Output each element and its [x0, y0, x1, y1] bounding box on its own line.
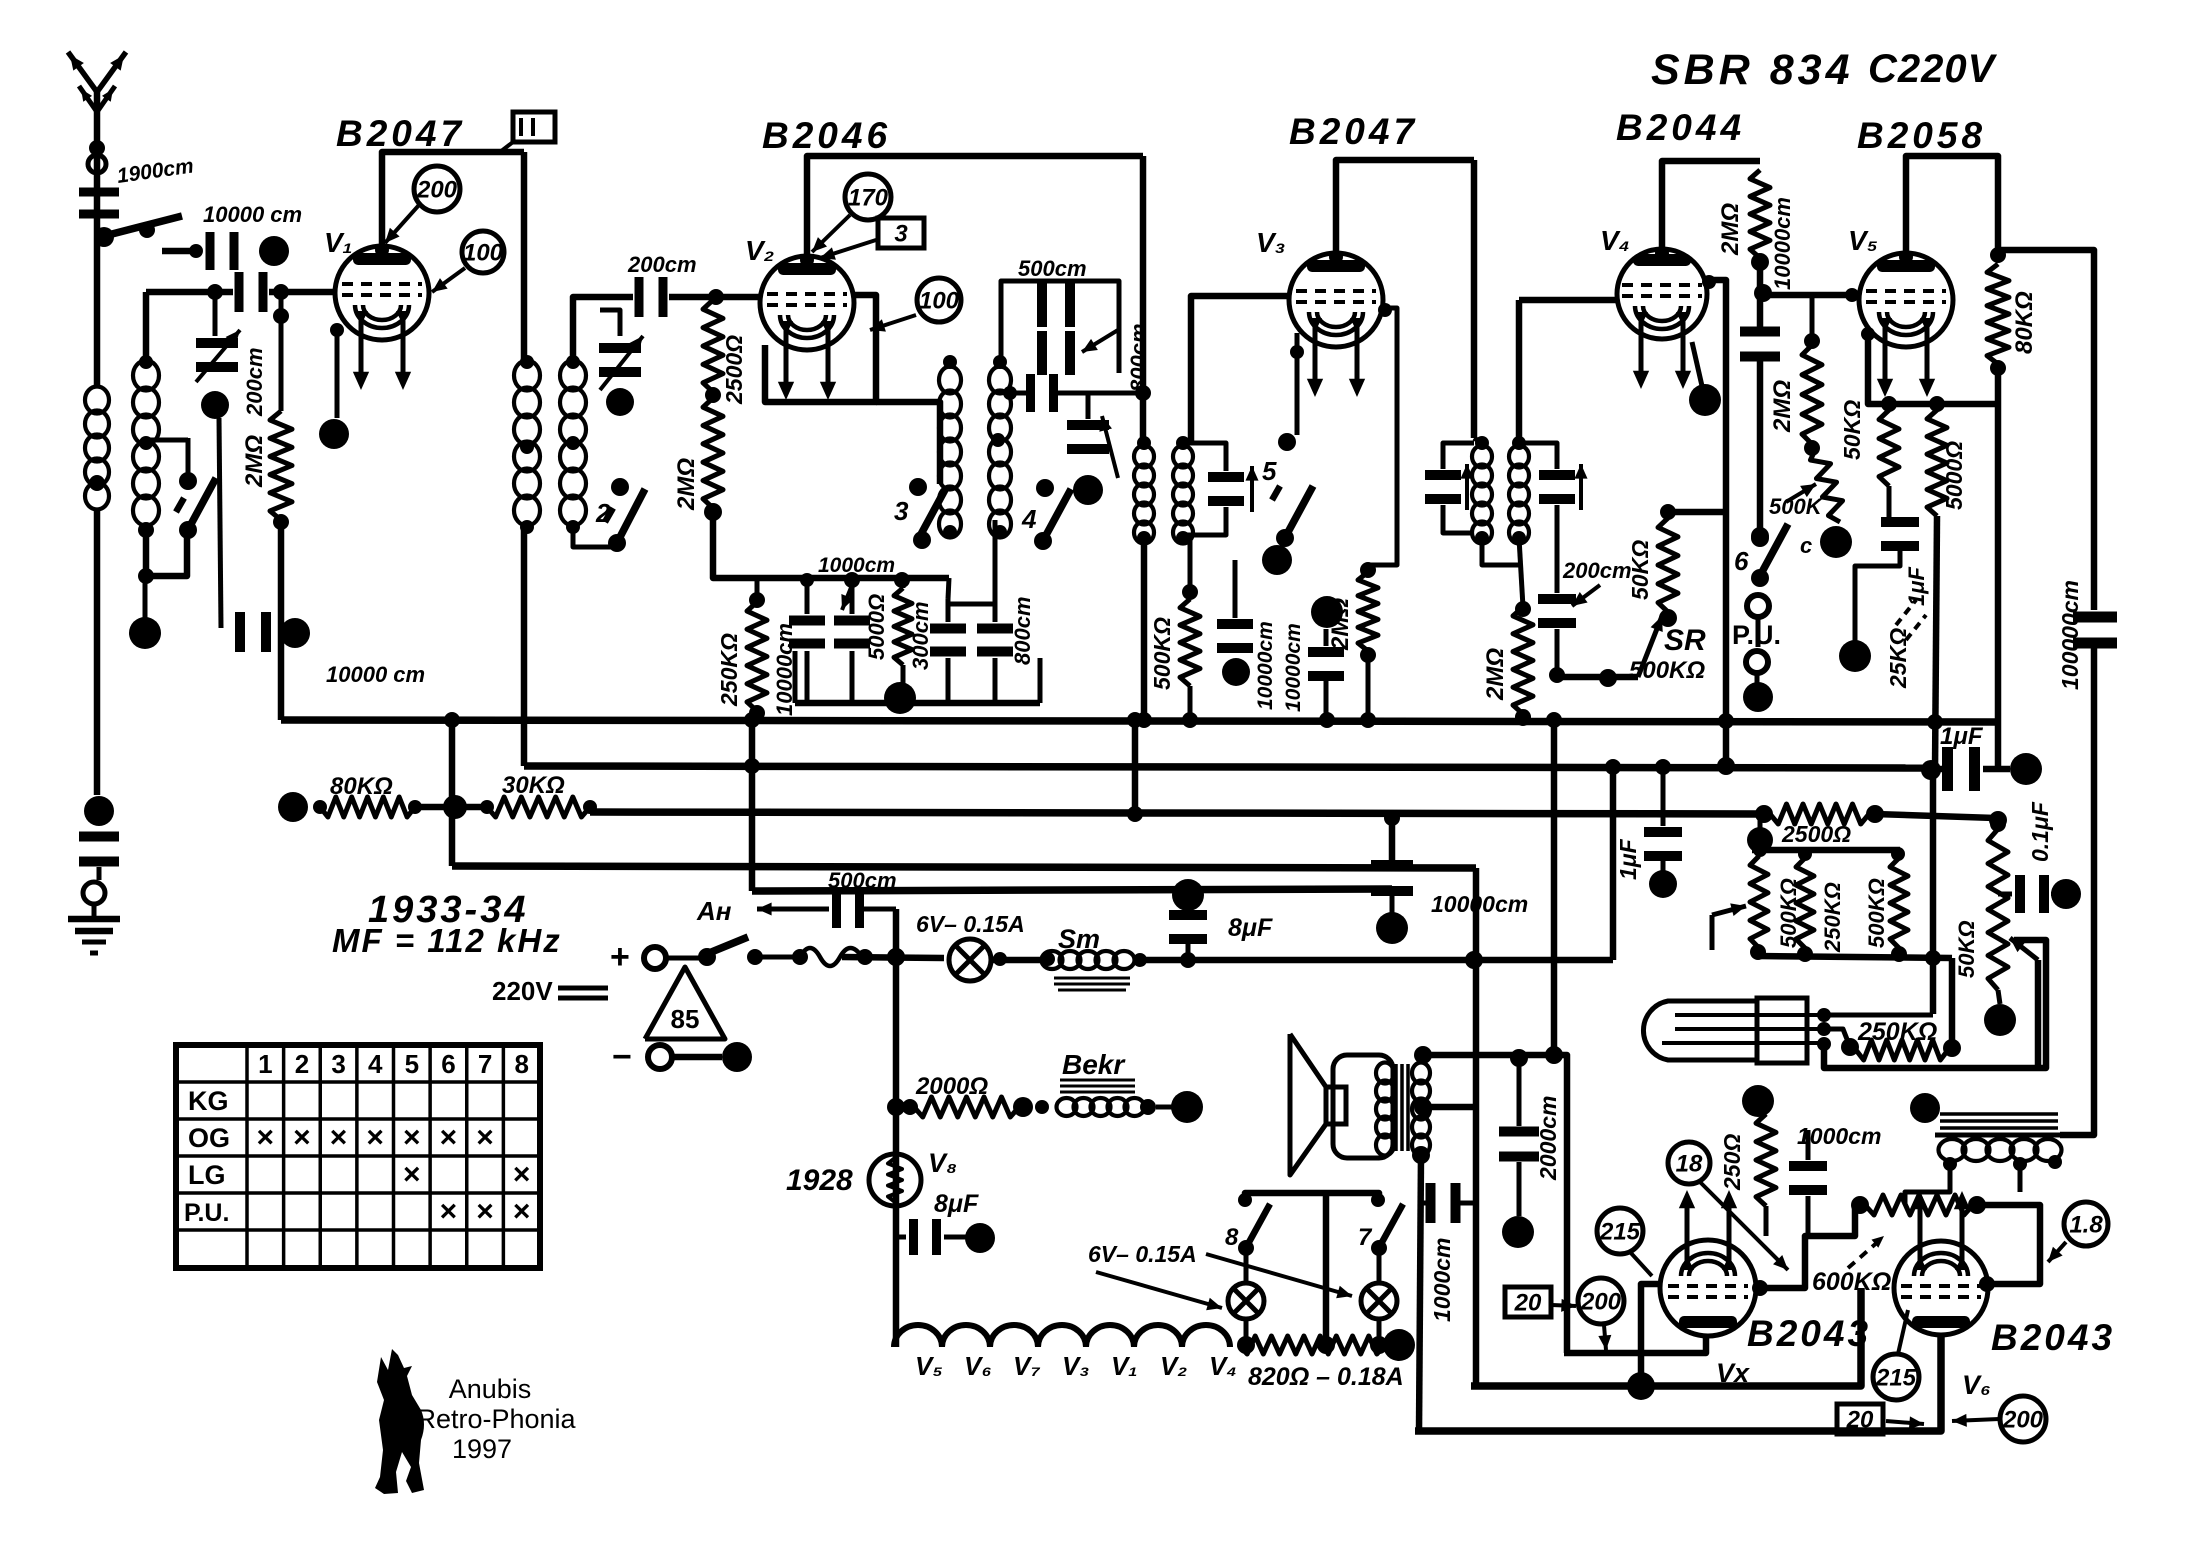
antenna [68, 52, 126, 215]
wire V5 grid [1763, 288, 1859, 302]
capacitor 300cm [930, 599, 966, 703]
coil antenna primary [85, 387, 109, 510]
wire bank verticals [1925, 772, 1952, 1048]
wire 2M V3 bottom [1366, 655, 1371, 720]
wire right edge down [2060, 648, 2094, 1135]
svg-text:2: 2 [295, 1049, 309, 1079]
svg-text:170: 170 [848, 184, 889, 211]
resistor 500KOhm bank1 [1750, 856, 1768, 948]
svg-text:Retro-Phonia: Retro-Phonia [416, 1404, 576, 1434]
label 2000 Ohm [915, 1073, 988, 1100]
svg-text:SBR 834: SBR 834 [1651, 46, 1853, 94]
wire 250K top [755, 578, 760, 602]
tube V5 [1859, 253, 1953, 397]
capacitor 8uF 2 [896, 1219, 941, 1255]
wire 2M V2 top [711, 297, 716, 300]
capacitor 10000cm V3a [1217, 560, 1253, 653]
node bias junction [443, 795, 467, 819]
wire trimmer terminal down [219, 418, 221, 628]
label plus [610, 938, 630, 976]
wire 2M bottom to bus [273, 514, 289, 720]
label 1900cm [115, 154, 195, 188]
resistor 250KOhm bulb [1856, 1039, 1961, 1060]
capacitor IFT2 tuning [1183, 443, 1259, 535]
output transformer primary [1376, 1063, 1394, 1156]
label 10000cm V3a [1254, 621, 1277, 710]
wire switch1 up [139, 436, 188, 481]
capacitor 10000cm V3b [1308, 629, 1344, 720]
svg-text:500KΩ: 500KΩ [1629, 657, 1705, 684]
coil Sm [1042, 951, 1135, 990]
svg-text:2: 2 [595, 498, 611, 528]
capacitor 200cm V4 [1538, 538, 1576, 671]
wire plate down to IFT1 [521, 152, 528, 360]
svg-text:10000 cm: 10000 cm [203, 202, 302, 227]
capacitor ground [79, 832, 119, 867]
output transformer secondary [1412, 1063, 1430, 1156]
node 2000cm blob [1502, 1162, 1534, 1248]
label V1 [324, 227, 353, 258]
wire bottom line 1 [1471, 1288, 1861, 1386]
wire switch to fuse [747, 949, 808, 965]
svg-text:18: 18 [1676, 1150, 1703, 1177]
svg-text:C220V: C220V [1868, 47, 1998, 91]
tube V4 [1617, 249, 1707, 389]
svg-text:1μF: 1μF [1940, 723, 1984, 750]
resistor 820 Ohm filament [1237, 1336, 1388, 1354]
svg-text:80KΩ: 80KΩ [330, 773, 393, 800]
label 500cm An [828, 868, 897, 893]
svg-text:2MΩ: 2MΩ [241, 435, 268, 488]
pointer circle 200 V1 [385, 166, 460, 243]
switch 2 [605, 478, 645, 552]
label B2047 (V3) [1289, 111, 1418, 152]
coil IFT2 primary [1134, 436, 1154, 545]
svg-text:c: c [1800, 533, 1812, 558]
svg-text:V₂: V₂ [1160, 1351, 1187, 1381]
label 1000cm [818, 554, 895, 610]
svg-text:Bekr: Bekr [1062, 1049, 1126, 1080]
resistor 2MOhm V2 [703, 398, 723, 508]
svg-text:200cm: 200cm [242, 347, 267, 417]
node V2 grid tap [708, 289, 724, 305]
switch antenna [112, 216, 182, 238]
resistor 80KOhm [1987, 264, 2009, 364]
wire PU blob [1755, 673, 1760, 684]
pointer circle 200 right [1952, 1396, 2046, 1442]
node 80K bottom [1990, 360, 2006, 376]
bulb rectifier [1643, 998, 1807, 1063]
title SBR 834 C220V [1651, 46, 1998, 94]
capacitor 800cm 2 [977, 604, 1013, 703]
svg-text:1928: 1928 [786, 1164, 853, 1197]
svg-text:×: × [257, 1121, 275, 1154]
label 3 [894, 496, 909, 526]
label 200cm V2 [627, 252, 697, 277]
wire osc rails [1001, 281, 1119, 373]
svg-text:100: 100 [919, 287, 960, 314]
svg-text:OG: OG [188, 1123, 230, 1153]
label 500KOhm V3 [1149, 617, 1175, 690]
resistor 80KOhm bias [278, 792, 422, 822]
wire SR top [1668, 509, 1726, 516]
wire V3 grid riser [1183, 296, 1290, 443]
svg-text:×: × [403, 1158, 421, 1191]
wire V2 anode up [800, 156, 1143, 267]
resistor 2MOhm V5 [1802, 333, 1822, 456]
svg-text:100000cm: 100000cm [2057, 580, 2083, 690]
label V6 [1962, 1370, 1991, 1400]
wire fuse to lamp [842, 948, 944, 966]
node 50K pot blob [1984, 990, 2016, 1036]
node sec bottom [1412, 1146, 1430, 1164]
svg-text:2MΩ: 2MΩ [1769, 380, 1796, 433]
wire V5 cathode [1861, 327, 1998, 404]
wire coupling node [1754, 262, 1772, 327]
label 10000 cm [203, 202, 302, 227]
label 10000 cm cathode [326, 662, 425, 687]
wire V3 cathode down [1290, 333, 1304, 435]
svg-text:2000cm: 2000cm [1535, 1096, 1561, 1181]
wire 1uF stubs [1939, 727, 2010, 769]
label 10000cm coupling [1770, 197, 1795, 290]
label 5000 Ohm V5 [1941, 441, 1967, 510]
svg-text:215: 215 [1599, 1218, 1641, 1245]
driver transformer blob [1910, 1093, 1940, 1123]
capacitor 1uF shunt [1644, 768, 1682, 861]
wire bus B [524, 766, 1931, 768]
label 10000cm bias [1431, 891, 1528, 917]
svg-text:V₅: V₅ [1848, 225, 1878, 256]
label V8 [928, 1148, 957, 1178]
svg-text:4: 4 [368, 1049, 383, 1079]
resistor 5000 Ohm V5 [1927, 396, 1947, 516]
svg-text:8μF: 8μF [934, 1190, 979, 1218]
pointer circle 100 V1 [432, 231, 504, 292]
wire V4 anode up [1655, 161, 1760, 260]
label 8uF [1228, 914, 1273, 942]
svg-text:3: 3 [894, 220, 908, 247]
capacitor 10000cm bias [1371, 810, 1413, 896]
resistor 5000 Ohm [894, 580, 912, 703]
svg-text:V₈: V₈ [928, 1148, 957, 1178]
label Vx [1716, 1358, 1750, 1388]
capacitor 100000cm [2073, 612, 2117, 649]
capacitor 10000cm coupling [1740, 327, 1780, 362]
svg-text:10000cm: 10000cm [1770, 197, 1795, 290]
svg-text:1.8: 1.8 [2069, 1211, 2103, 1238]
pointer circle 215 bottom [1873, 1310, 1919, 1400]
wire cap to terminal [97, 867, 102, 880]
switch 5 [1272, 433, 1313, 547]
label 2 [595, 498, 611, 528]
fuse squiggle [800, 948, 873, 966]
wire tap down to trimmer [213, 292, 218, 336]
svg-text:500K: 500K [1769, 494, 1824, 519]
svg-text:800cm: 800cm [1126, 323, 1151, 392]
pointer circle 1.8 [2048, 1202, 2108, 1262]
wire to ground [92, 904, 97, 917]
label 250 Ohm [1719, 1134, 1745, 1191]
svg-text:V₆: V₆ [964, 1351, 992, 1381]
resistor 2500 Ohm V2 [703, 300, 723, 392]
label 250KOhm [716, 633, 742, 707]
svg-text:10000cm: 10000cm [1254, 621, 1277, 710]
resistor 600KOhm [1851, 1195, 1986, 1215]
label 5 [1262, 456, 1277, 486]
wire trimmer v2 top [600, 310, 620, 336]
node resistor tap [273, 284, 289, 300]
svg-text:B2047: B2047 [336, 113, 465, 154]
svg-text:500KΩ: 500KΩ [1864, 878, 1889, 948]
label B2046 (V2) [762, 115, 891, 156]
wire coil to switch2 [573, 527, 617, 547]
wire V1 cathode down [335, 330, 340, 418]
tube V1 [335, 246, 429, 390]
label 0.1uF [2027, 801, 2053, 862]
node 10000cm V3a blob [1222, 658, 1250, 686]
coil IFT1 secondary [560, 355, 586, 534]
pot 500K V5 [1786, 448, 1843, 522]
terminal ring [83, 882, 105, 904]
wire grid bus V1 [146, 289, 336, 296]
wire trimmer osc top [1086, 393, 1091, 419]
label 50KOhm V5 box [1839, 400, 1865, 460]
wire V3 plate down [1471, 160, 1478, 438]
label 2MOhm coupling [1717, 203, 1744, 256]
label 80KOhm bias [330, 773, 393, 800]
coil osc grid [939, 355, 961, 539]
wiper 50K [2010, 938, 2038, 1068]
capacitor osc bank 1 [789, 580, 825, 703]
tube Vx B2043 [1660, 1190, 1756, 1336]
svg-text:30KΩ: 30KΩ [502, 772, 565, 799]
wire sec top right [1423, 1049, 1567, 1353]
node trimmer V2 terminal [606, 388, 634, 416]
label 50KOhm pot [1954, 920, 1979, 978]
logo text [416, 1374, 576, 1464]
label 800cm osc [1126, 323, 1151, 392]
label 10000cm V3b [1282, 623, 1305, 712]
wire driver sec leads [1905, 1162, 2020, 1205]
svg-text:600KΩ: 600KΩ [1812, 1268, 1891, 1296]
label PU [1732, 620, 1781, 650]
node terminal right blob [259, 236, 289, 266]
capacitor 200cm grid V1 [235, 272, 268, 312]
svg-text:1000cm: 1000cm [1797, 1123, 1881, 1149]
wire V1 anode up [375, 152, 524, 257]
resistor bank top line [1747, 818, 1905, 861]
wire antenna coil down [89, 475, 105, 795]
wire 5000 down [1935, 516, 1937, 770]
wire V2 U to osc [876, 402, 940, 484]
capacitor 8uF [1169, 910, 1207, 960]
node 1uF shunt blob [1649, 861, 1677, 898]
node cathode cap blob [280, 618, 310, 648]
wire bus C [415, 807, 1764, 814]
bulb electrodes [1662, 1008, 1831, 1051]
node Bekr blob [1156, 1091, 1203, 1123]
wire bus G end up [1610, 767, 1617, 960]
label 10000cm osc [772, 623, 797, 716]
switch 3 [909, 478, 946, 549]
svg-text:1μF: 1μF [1615, 838, 1641, 880]
switch 6 [1751, 484, 1788, 587]
coil antenna secondary [133, 355, 159, 526]
svg-text:5: 5 [405, 1049, 419, 1079]
label 2MOhm V3 [1327, 598, 1354, 651]
fuse triangle 85 [645, 967, 725, 1039]
svg-text:2000Ω: 2000Ω [915, 1073, 988, 1100]
label 50KOhm SR [1627, 540, 1653, 600]
label 500K V5 [1769, 494, 1824, 519]
pointer circle 18 top [1668, 1142, 1788, 1270]
wire V3 right pin down [1368, 303, 1397, 565]
node minus blob [722, 1042, 752, 1072]
wire IFT3 bottom [1482, 538, 1519, 565]
pointer box 20 bottom [1837, 1404, 1924, 1434]
capacitor 2000cm out [1499, 1058, 1539, 1162]
label 600KOhm [1812, 1236, 1891, 1296]
resistor 2MOhm V4 [1513, 601, 1533, 725]
wire PU [1756, 617, 1761, 647]
resistor 50KOhm V5 [1879, 396, 1899, 486]
svg-text:250KΩ: 250KΩ [1857, 1018, 1937, 1046]
filament bus scallops [894, 1325, 1230, 1347]
svg-text:5000Ω: 5000Ω [864, 594, 889, 660]
svg-text:−: − [612, 1038, 632, 1076]
label 1933-34 [368, 889, 528, 931]
wire 2M V5 top [1810, 295, 1815, 345]
label 6V-0.15A [916, 911, 1025, 937]
node V4 blob [1689, 342, 1721, 416]
wire V5 anode up [1899, 156, 2006, 264]
label B2043 right [1991, 1317, 2115, 1358]
ground [68, 919, 120, 953]
label V3 [1256, 227, 1286, 258]
switch 1 [176, 472, 216, 539]
wire 2M top [273, 292, 289, 411]
node line1 blob [1627, 1372, 1655, 1400]
terminal plus [644, 947, 666, 969]
node 250 top blob [1742, 1085, 1774, 1117]
node switch5 blob [1262, 545, 1292, 575]
svg-text:B2043: B2043 [1991, 1317, 2115, 1358]
node 8uF blob [1172, 879, 1204, 911]
wire osc cap row [1003, 386, 1139, 400]
svg-text:V₃: V₃ [1062, 1351, 1089, 1381]
wire antenna to junction [94, 215, 101, 237]
svg-text:8: 8 [514, 1049, 528, 1079]
svg-text:6: 6 [441, 1049, 455, 1079]
label 1000cm out [1429, 1238, 1455, 1322]
wire sec bottom down [1419, 1155, 1421, 1431]
label B2058 (V5) [1857, 115, 1986, 156]
svg-text:8μF: 8μF [1228, 914, 1273, 942]
wire bottom line 2 [1415, 1333, 1941, 1431]
svg-text:200cm: 200cm [1562, 558, 1632, 583]
svg-text:1000cm: 1000cm [1429, 1238, 1455, 1322]
wire An vertical [887, 909, 905, 1347]
svg-text:B2043: B2043 [1747, 1313, 1871, 1354]
node antenna junction [94, 227, 114, 247]
wire 2500 to 2M [705, 387, 721, 403]
wire V2 plate right down [1135, 156, 1151, 443]
svg-text:500cm: 500cm [828, 868, 897, 893]
node sec top [1414, 1046, 1432, 1064]
svg-text:2MΩ: 2MΩ [1327, 598, 1354, 651]
resistor 250KOhm [747, 592, 767, 721]
svg-text:6: 6 [1734, 546, 1749, 576]
label B2043 left [1747, 1313, 1871, 1354]
svg-text:100: 100 [463, 239, 504, 266]
svg-text:10000cm: 10000cm [1431, 891, 1528, 917]
label V4 [1600, 225, 1630, 256]
terminal minus [648, 1045, 672, 1069]
svg-text:50KΩ: 50KΩ [1627, 540, 1653, 600]
label 1928 [786, 1164, 853, 1197]
svg-text:2500Ω: 2500Ω [1781, 821, 1851, 847]
trimmer V2 osc [599, 336, 643, 390]
svg-text:B2058: B2058 [1857, 115, 1986, 156]
wire bulb mid lead [1824, 1029, 1859, 1056]
svg-text:250KΩ: 250KΩ [716, 633, 742, 707]
label 1000cm drv [1797, 1123, 1881, 1149]
flag pickup symbol [500, 112, 555, 152]
output transformer core [1396, 1064, 1408, 1151]
node trimmer terminal [201, 391, 229, 419]
wire osc bank bottom rail [795, 651, 1040, 703]
svg-text:300cm: 300cm [908, 601, 933, 670]
svg-text:7: 7 [1358, 1224, 1373, 1251]
wire Sm to right [1133, 952, 1613, 968]
wire bulb bottom loop [1824, 940, 2046, 1068]
svg-text:MF = 112 kHz: MF = 112 kHz [332, 922, 562, 959]
node trimmer osc terminal [1073, 475, 1103, 505]
svg-text:200: 200 [2002, 1406, 2044, 1433]
node osc bank blob [884, 682, 916, 714]
node trimmer tap [207, 284, 223, 300]
svg-text:200: 200 [416, 176, 458, 203]
wire 80K down [1995, 368, 2002, 727]
svg-text:V₄: V₄ [1600, 225, 1630, 256]
wire 50K to cap [1887, 486, 1892, 517]
svg-text:SR: SR [1664, 624, 1706, 657]
wire Vx grid staircase [1752, 1205, 1855, 1296]
wire bulb top lead [1824, 1013, 1933, 1018]
svg-text:85: 85 [671, 1004, 700, 1034]
terminal PU bottom [1746, 651, 1768, 673]
svg-text:×: × [330, 1121, 348, 1154]
resistor 2MOhm V1 grid [270, 411, 292, 520]
wire V2 cathode U [765, 295, 876, 402]
wire 2M V4 top [1519, 538, 1523, 607]
wire minus to blob [672, 1054, 722, 1061]
capacitor IFT3 right [1519, 443, 1588, 538]
node IFT1 mid taps [520, 436, 580, 454]
node ground junction [84, 796, 114, 826]
node left blob [129, 617, 161, 649]
label V5 [1848, 225, 1878, 256]
tube V6 B2043 [1894, 1191, 1988, 1335]
coil IFT3 left [1472, 436, 1492, 545]
label Bekr [1060, 1049, 1135, 1092]
svg-text:KG: KG [188, 1086, 229, 1116]
label 8 switch [1225, 1224, 1239, 1251]
wire wiper SR [1557, 616, 1663, 677]
wire osc bottom rail [713, 512, 949, 599]
svg-text:×: × [513, 1195, 531, 1228]
